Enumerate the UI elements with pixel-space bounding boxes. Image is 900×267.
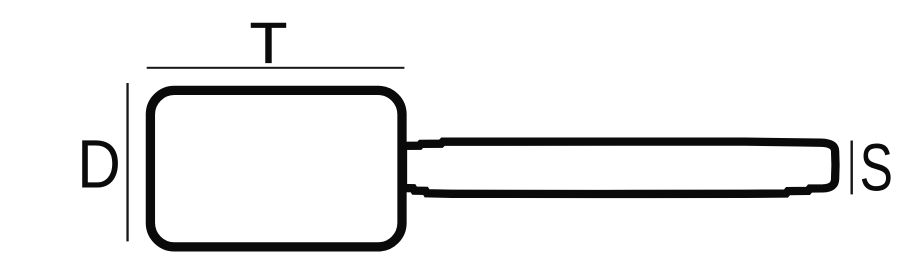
mallet head: [150, 90, 402, 247]
svg-text:D: D: [77, 126, 121, 202]
svg-text:S: S: [860, 132, 893, 205]
dimension line S: [851, 141, 853, 195]
dimension line D: [126, 83, 128, 241]
handle: [403, 142, 836, 194]
dimension line T: [147, 67, 405, 69]
svg-text:T: T: [250, 10, 288, 75]
